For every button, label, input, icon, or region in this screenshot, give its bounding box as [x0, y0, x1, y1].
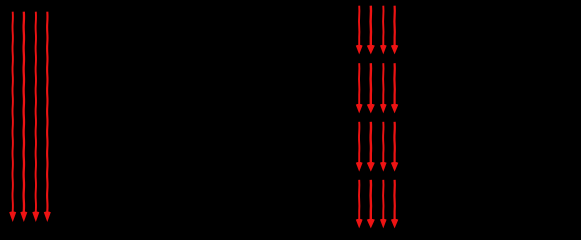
field arrow ER31 (right stack row 3 col 1) [356, 122, 363, 172]
field arrow EL2 (left slab polarization arrow) [20, 12, 27, 222]
field arrow ER22 (right stack row 2 col 2) [367, 63, 375, 113]
field arrow ER32 (right stack row 3 col 2) [367, 122, 375, 172]
field arrow ER11 (right stack row 1 col 1) [356, 6, 363, 55]
field arrow ER43 (right stack row 4 col 3) [380, 180, 387, 229]
field arrow ER23 (right stack row 2 col 3) [380, 63, 387, 113]
field arrow ER44 (right stack row 4 col 4) [391, 180, 398, 229]
field arrow ER24 (right stack row 2 col 4) [391, 63, 398, 113]
right stacked slab outlines [353, 2, 402, 58]
field arrow ER41 (right stack row 4 col 1) [356, 180, 363, 229]
field arrow EL1 (left slab polarization arrow) [9, 12, 16, 222]
field arrow EL3 (left slab polarization arrow) [32, 12, 39, 222]
field arrow ER33 (right stack row 3 col 3) [380, 122, 387, 172]
field arrow ER34 (right stack row 3 col 4) [391, 122, 398, 172]
field arrow ER21 (right stack row 2 col 1) [356, 63, 363, 113]
field arrow ER12 (right stack row 1 col 2) [367, 6, 375, 55]
field arrow ER13 (right stack row 1 col 3) [380, 6, 387, 55]
left slab outline (uniformly polarized slab) [6, 5, 55, 229]
field arrow ER42 (right stack row 4 col 2) [367, 180, 375, 229]
field arrow ER14 (right stack row 1 col 4) [391, 6, 398, 55]
field arrow EL4 (left slab polarization arrow) [44, 12, 51, 222]
